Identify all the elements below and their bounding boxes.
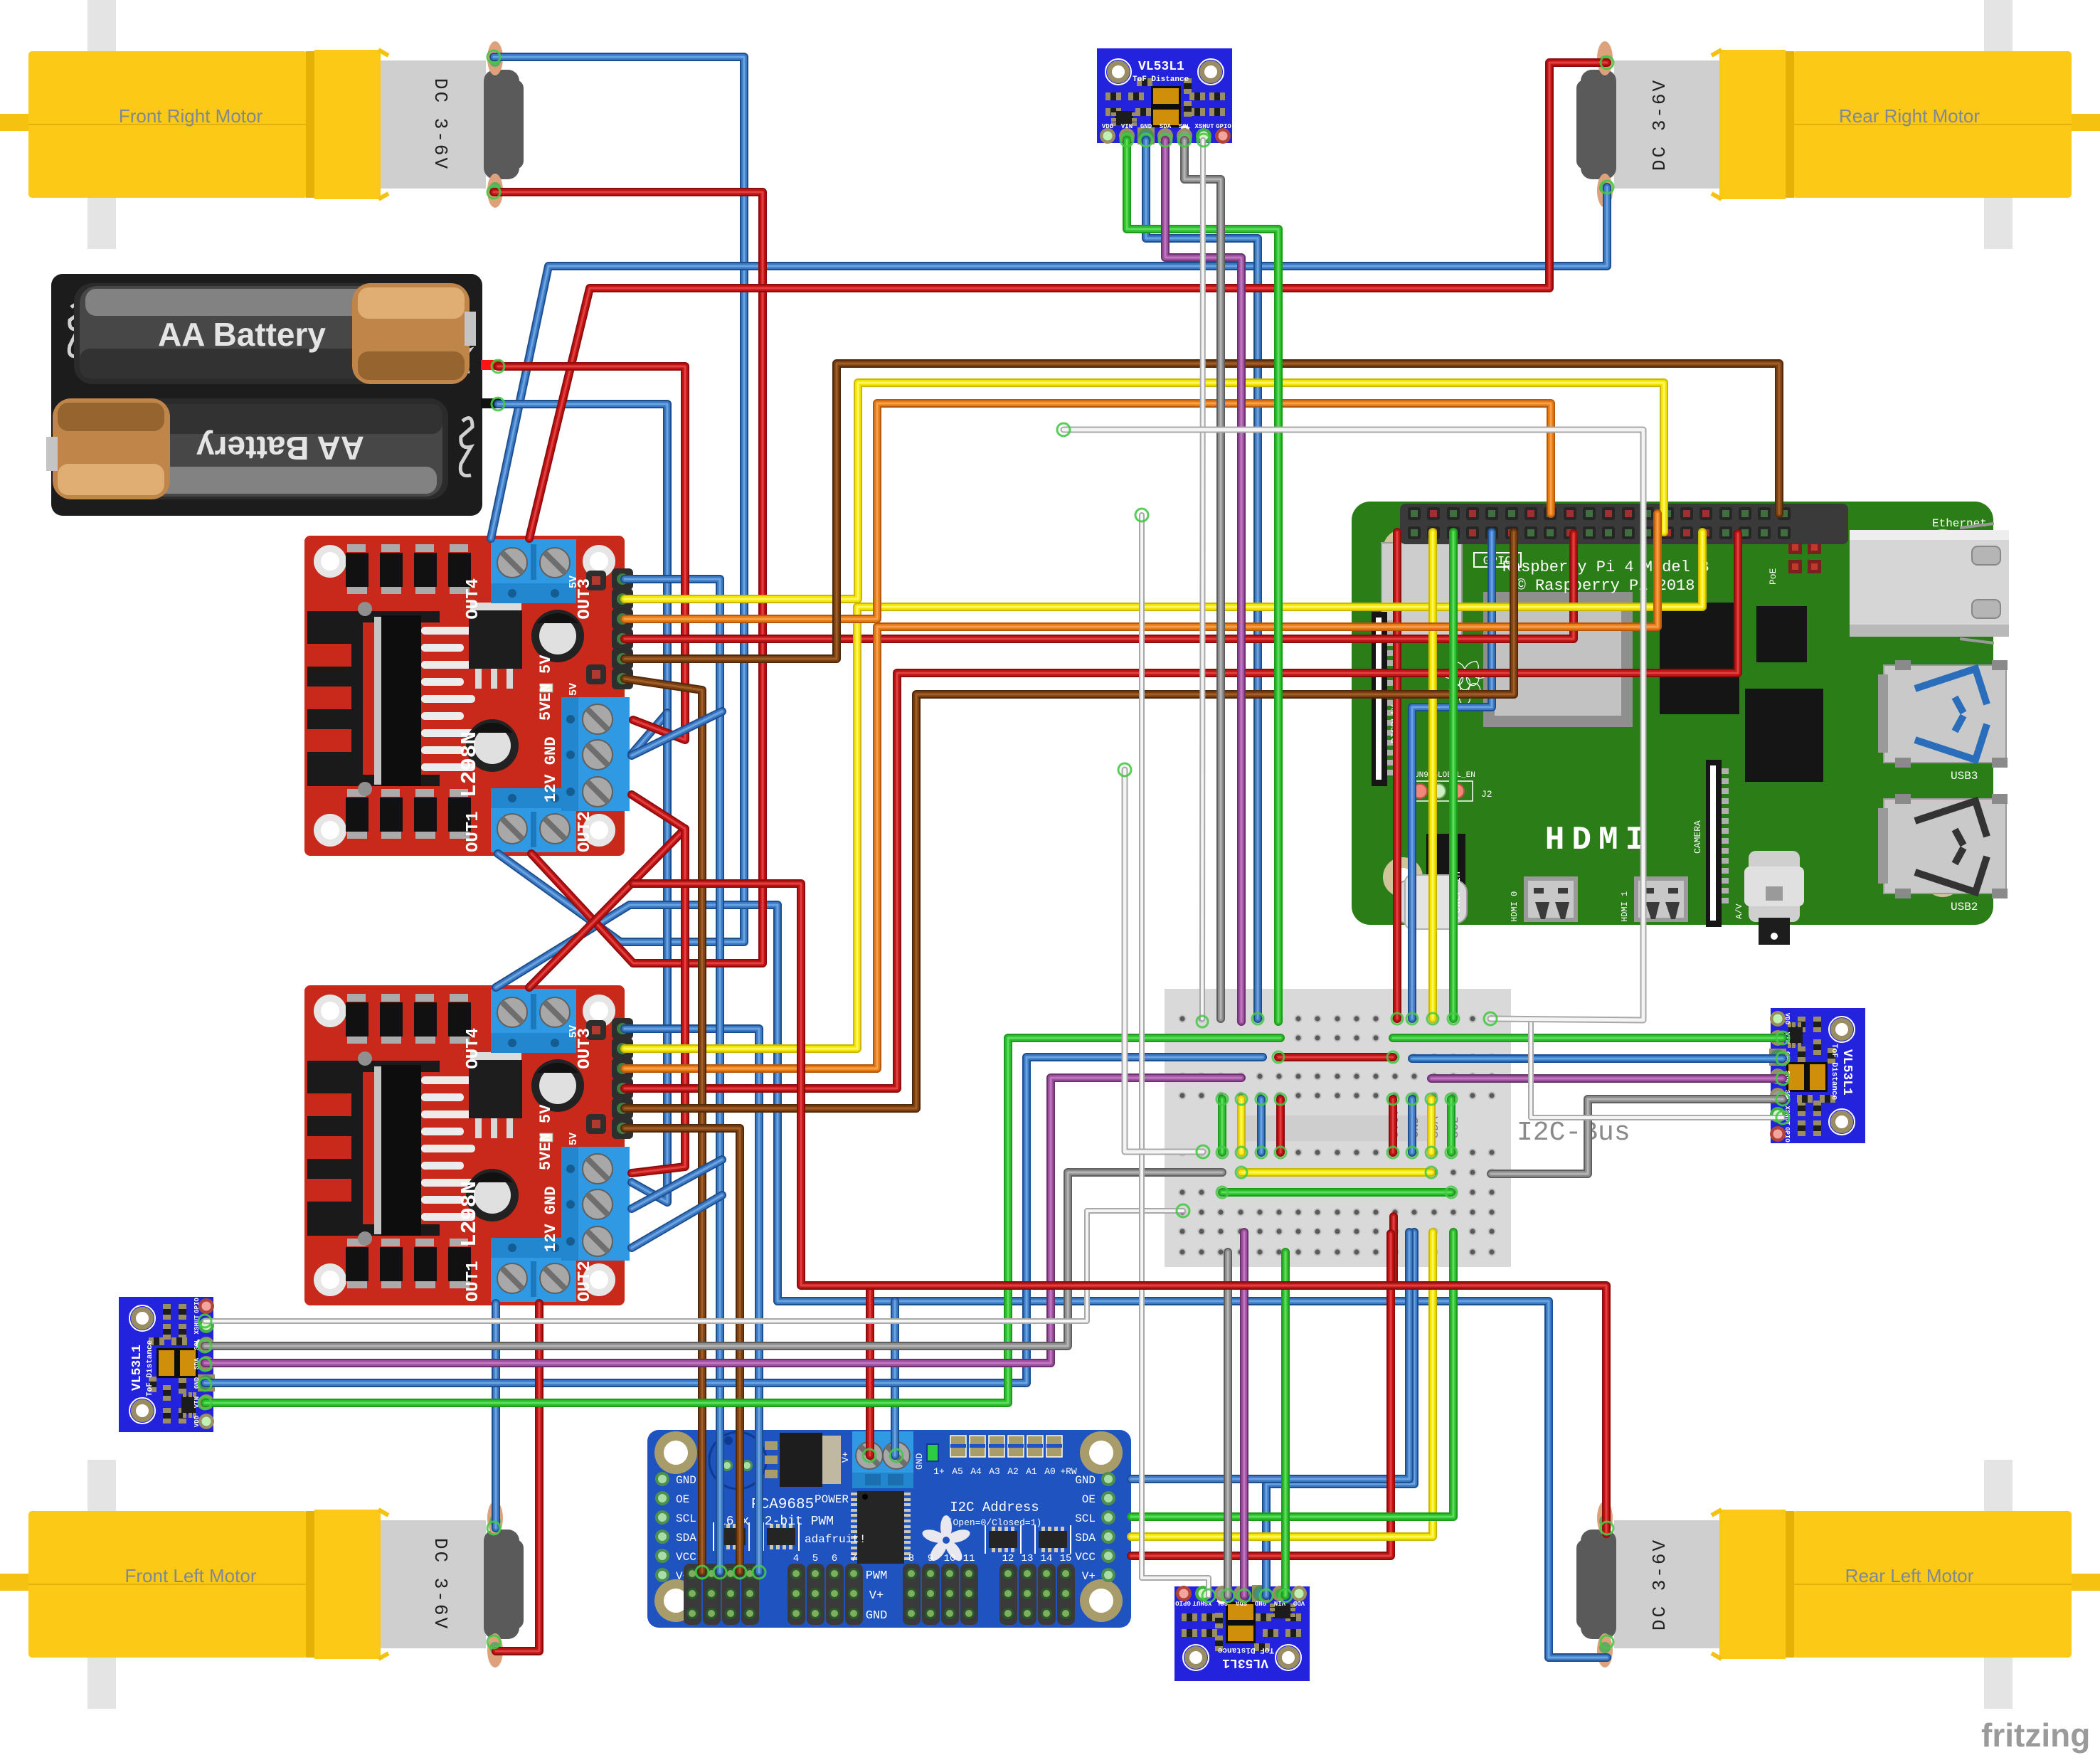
- wire breadboard GND jumper left: [1257, 1099, 1266, 1152]
- wire breadboard SDA jumper right: [1427, 1099, 1436, 1152]
- wire Pi 3V3 pin to breadboard: [1393, 532, 1401, 1019]
- wire S3 SDA to breadboard: [205, 1078, 1241, 1363]
- svg-text:UN9 GLOBAL_EN: UN9 GLOBAL_EN: [1414, 771, 1475, 780]
- svg-text:Front Left Motor: Front Left Motor: [125, 1565, 257, 1586]
- svg-text:Raspberry Pi 4 Model B: Raspberry Pi 4 Model B: [1502, 558, 1709, 576]
- wire breadboard SCL row link: [1222, 1188, 1451, 1197]
- svg-text:Ethernet: Ethernet: [1932, 517, 1987, 530]
- wire U2 ENB to PCA9685 ch2: [625, 1128, 740, 1572]
- svg-text:(Open=0/Closed=1): (Open=0/Closed=1): [948, 1517, 1042, 1528]
- svg-text:8: 8: [908, 1553, 914, 1564]
- battery negative lead stub: [481, 398, 501, 408]
- wire breadboard SCL jumper right: [1447, 1099, 1455, 1152]
- wire front-left motor - to U2 OUT2: [496, 1303, 539, 1651]
- svg-text:adafruit!: adafruit!: [805, 1533, 866, 1546]
- wire U1 IN1 to Pi GPIO: [625, 383, 1664, 599]
- wire battery negative bus to U2 GND: [632, 713, 667, 1202]
- wire spare XSHUT lead (dangling): [1125, 770, 1203, 1152]
- motor driver U1 L298N (upper): [304, 536, 633, 856]
- svg-text:VCC: VCC: [1075, 1551, 1096, 1564]
- svg-text:OE: OE: [1082, 1493, 1096, 1506]
- wire U2 ENA to PCA9685 ch3: [625, 1029, 759, 1572]
- svg-text:11: 11: [963, 1553, 975, 1564]
- svg-text:SCL: SCL: [676, 1512, 696, 1525]
- svg-text:VCC: VCC: [676, 1551, 696, 1564]
- wire battery positive to U2 OUT3 column: [498, 366, 685, 740]
- svg-text:Front Right Motor: Front Right Motor: [119, 105, 263, 127]
- svg-text:DC 3-6V: DC 3-6V: [430, 78, 451, 171]
- wire S3 GND to breadboard: [205, 1057, 1263, 1383]
- wire breadboard SCL jumper left: [1218, 1099, 1226, 1152]
- svg-text:7: 7: [851, 1553, 857, 1564]
- distance sensor S2 VL53L1X (right): [1769, 1008, 1865, 1143]
- connector junction dots: [198, 51, 1789, 1648]
- svg-text:HDMI 0: HDMI 0: [1510, 891, 1520, 922]
- wire U2 IN4 to Pi GPIO: [625, 532, 1514, 1108]
- wire GND trunk drop to PCA9685 GND screw: [891, 1301, 899, 1456]
- wire PCA9685 GND to breadboard: [1131, 1232, 1409, 1479]
- svg-text:4: 4: [793, 1553, 799, 1564]
- wire S1 VIN to breadboard: [1127, 140, 1278, 1022]
- wire breadboard GND jumper right: [1408, 1099, 1416, 1152]
- svg-text:I2C Address: I2C Address: [950, 1500, 1039, 1515]
- svg-text:PoE: PoE: [1768, 568, 1778, 585]
- wire breadboard SDA jumper left: [1237, 1099, 1246, 1152]
- PWM driver U3 PCA9685 (adafruit 16-channel): [647, 1430, 1131, 1628]
- svg-text:I2C-Bus: I2C-Bus: [1517, 1118, 1630, 1148]
- wire S2 SCL to breadboard: [1491, 1099, 1783, 1174]
- wire S4 GND to breadboard: [1266, 1232, 1414, 1596]
- wire Pi SCL pin to breadboard: [1449, 532, 1458, 1019]
- svg-text:14: 14: [1041, 1553, 1053, 1564]
- svg-text:OE: OE: [676, 1493, 689, 1506]
- wire S4 SDA to breadboard: [1240, 1232, 1248, 1596]
- svg-text:A5: A5: [952, 1466, 963, 1477]
- svg-text:15: 15: [1060, 1553, 1072, 1564]
- wire U1 5V to rear-left motor via trunk: [496, 905, 1607, 1658]
- wire Pi SDA pin to breadboard: [1428, 532, 1437, 1019]
- wire U2 5V cross stub: [632, 1195, 722, 1248]
- svg-text:fritzing: fritzing: [1981, 1717, 2090, 1754]
- svg-text:6: 6: [832, 1553, 837, 1564]
- svg-text:SDA: SDA: [676, 1532, 696, 1544]
- wire 5V trunk to rear-left motor: [632, 795, 685, 1173]
- wire S2 SDA to breadboard: [1431, 1074, 1783, 1083]
- motor driver U2 L298N (lower): [304, 985, 633, 1305]
- svg-text:AA Battery: AA Battery: [196, 430, 364, 467]
- wire PCA9685 SDA to breadboard: [1131, 1232, 1433, 1537]
- svg-text:J2: J2: [1481, 789, 1492, 800]
- wire rear-right motor - to U1 OUT3: [529, 63, 1607, 539]
- svg-text:Rear Right Motor: Rear Right Motor: [1839, 105, 1980, 127]
- distance sensor S4 VL53L1X (bottom): [1174, 1585, 1310, 1681]
- motor M3 Front Left Motor: [0, 1460, 524, 1709]
- wire S1 GND to breadboard: [1146, 140, 1258, 1019]
- wire S4 XSHUT to Pi GPIO: [1142, 515, 1209, 1596]
- svg-text:9: 9: [928, 1553, 933, 1564]
- wire S4 VIN to breadboard: [1281, 1252, 1290, 1596]
- svg-text:V+: V+: [840, 1451, 851, 1463]
- wire breadboard 3.3V row link: [1278, 1053, 1393, 1061]
- wire breadboard SDA row link: [1241, 1168, 1431, 1177]
- svg-text:DC 3-6V: DC 3-6V: [1649, 1538, 1670, 1631]
- svg-text:A/V: A/V: [1734, 903, 1744, 919]
- svg-text:5: 5: [812, 1553, 818, 1564]
- wire front-left motor + to U2 OUT1: [492, 1303, 500, 1528]
- wire breadboard power row to S2 VIN: [1393, 1034, 1783, 1042]
- wire battery negative to U1 GND: [498, 404, 667, 754]
- motor M2 Rear Right Motor: [1576, 0, 2100, 249]
- svg-text:1+: 1+: [933, 1466, 945, 1477]
- wire S3 VIN to breadboard power row: [205, 1038, 1280, 1403]
- wire breadboard 3.3V rail to red trunk: [1389, 1216, 1398, 1285]
- wire breadboard 3.3V jumper left: [1276, 1099, 1285, 1152]
- wire U2 GND cross stub: [632, 1160, 722, 1209]
- wire front-right motor + to U1 OUT1: [494, 57, 744, 942]
- svg-text:© Raspberry Pi 2018: © Raspberry Pi 2018: [1517, 577, 1695, 595]
- svg-text:POWER: POWER: [815, 1493, 849, 1506]
- svg-text:V+: V+: [869, 1589, 884, 1603]
- wire front-right motor - to U1 OUT2: [494, 192, 763, 963]
- svg-text:AA Battery: AA Battery: [158, 316, 326, 353]
- svg-text:GND: GND: [1075, 1474, 1096, 1487]
- svg-text:10: 10: [944, 1553, 956, 1564]
- wire battery positive tap to U1 12V: [529, 829, 685, 987]
- svg-text:+RW: +RW: [1060, 1466, 1077, 1477]
- wire S2 XSHUT to breadboard: [1531, 1022, 1783, 1118]
- svg-text:DC 3-6V: DC 3-6V: [430, 1538, 451, 1631]
- wire 5V trunk drop to PCA9685 V+ screw: [866, 1285, 874, 1456]
- svg-text:SCL: SCL: [1075, 1512, 1096, 1525]
- Raspberry Pi 4 Model B: [1352, 502, 2009, 945]
- wire S1 SDA to breadboard: [1165, 140, 1241, 1022]
- distance sensor S3 VL53L1X (left): [119, 1297, 215, 1432]
- svg-text:GND: GND: [914, 1453, 925, 1470]
- svg-text:Rear Left Motor: Rear Left Motor: [1845, 1565, 1974, 1586]
- svg-text:USB3: USB3: [1951, 770, 1978, 783]
- wire Pi GPIO XSHUT to breadboard: [1064, 430, 1643, 1020]
- wire breadboard GND rail to blue trunk: [1410, 1232, 1418, 1301]
- wire PCA9685 VCC to breadboard: [1131, 1234, 1391, 1556]
- svg-text:SDA: SDA: [1075, 1532, 1096, 1544]
- svg-text:A4: A4: [970, 1466, 982, 1477]
- svg-text:A1: A1: [1026, 1466, 1037, 1477]
- wire S1 XSHUT down corridor: [1202, 140, 1203, 1019]
- wire U1 GND to 5V cross stub: [632, 711, 722, 756]
- wire S3 XSHUT to Pi GPIO: [205, 1211, 1183, 1321]
- breadboard (I2C bus): [1165, 989, 1511, 1267]
- wire PCA9685 SCL to breadboard: [1131, 1232, 1453, 1517]
- wire 5V trunk to rear-left motor: [633, 884, 1606, 1534]
- motor M4 Rear Left Motor: [1576, 1460, 2100, 1709]
- svg-text:A2: A2: [1007, 1466, 1019, 1477]
- svg-text:V+: V+: [1082, 1570, 1096, 1583]
- wire S2 GND to breadboard: [1412, 1054, 1783, 1063]
- motor M1 Front Right Motor: [0, 0, 524, 249]
- wire U1 IN2 to Pi GPIO: [625, 403, 1551, 619]
- svg-text:HDMI 1: HDMI 1: [1620, 891, 1630, 922]
- wire S1 SCL to breadboard: [1184, 140, 1221, 1019]
- svg-text:USB2: USB2: [1951, 901, 1978, 913]
- wire U1 IN3 to Pi GPIO: [625, 534, 1574, 639]
- battery positive lead stub: [481, 360, 501, 370]
- wire U2 IN1 to Pi GPIO: [625, 532, 1702, 1049]
- wire Pi GND pin to breadboard GND column: [1412, 532, 1492, 1019]
- wire S3 SCL to breadboard: [205, 1172, 1222, 1346]
- svg-text:A0: A0: [1044, 1466, 1056, 1477]
- wire breadboard 3.3V jumper right: [1389, 1099, 1397, 1152]
- GPIO header J1 pins: [1408, 507, 1791, 539]
- svg-text:CAMERA: CAMERA: [1692, 820, 1703, 854]
- wire S4 SCL to breadboard: [1224, 1252, 1232, 1596]
- wire U1 ENA to PCA9685 ch1: [625, 579, 720, 1572]
- battery holder BT1 2x AA Battery: [46, 274, 482, 516]
- wire U1 ENB to PCA9685 ch0: [625, 679, 702, 1572]
- wire rear-right motor + to U1 OUT4: [491, 187, 1607, 539]
- svg-text:DC 3-6V: DC 3-6V: [1649, 78, 1670, 171]
- svg-text:GND: GND: [866, 1609, 888, 1623]
- svg-text:A3: A3: [989, 1466, 1000, 1477]
- svg-text:12: 12: [1002, 1553, 1014, 1564]
- svg-text:HDMI: HDMI: [1545, 822, 1652, 859]
- wire U1 IN4 to Pi GPIO: [625, 364, 1779, 659]
- svg-text:GND: GND: [676, 1474, 696, 1487]
- svg-text:PWM: PWM: [866, 1569, 888, 1583]
- distance sensor S1 VL53L1X (top): [1097, 48, 1232, 144]
- wire U2 IN3 to Pi GPIO: [625, 534, 1738, 1088]
- svg-text:13: 13: [1022, 1553, 1034, 1564]
- wire U2 IN2 to Pi GPIO: [625, 514, 1658, 1069]
